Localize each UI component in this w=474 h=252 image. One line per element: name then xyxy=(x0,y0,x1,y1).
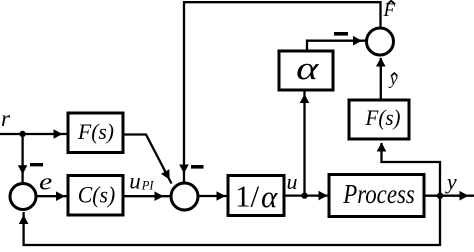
svg-text:F(s): F(s) xyxy=(77,119,114,144)
svg-text:y: y xyxy=(388,70,398,89)
svg-text:F(s): F(s) xyxy=(365,105,401,130)
svg-text:e: e xyxy=(39,168,52,195)
svg-text:u: u xyxy=(287,169,298,194)
svg-text:α: α xyxy=(296,50,319,87)
svg-text:r: r xyxy=(1,106,11,131)
svg-text:1/: 1/ xyxy=(235,178,260,213)
svg-text:α: α xyxy=(261,179,278,214)
svg-text:Process: Process xyxy=(342,179,414,209)
svg-text:y: y xyxy=(445,169,457,194)
svg-text:PI: PI xyxy=(141,179,155,193)
svg-text:u: u xyxy=(129,168,141,193)
svg-text:C(s): C(s) xyxy=(78,183,116,208)
